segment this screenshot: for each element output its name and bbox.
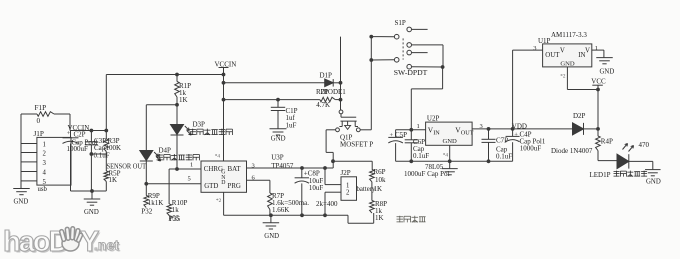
node: R7P ground junction <box>269 213 273 217</box>
svg-text:D: D <box>221 180 225 186</box>
LED D4P (green) <box>140 146 171 195</box>
node: D4P cathode junction <box>144 182 148 186</box>
svg-text:2: 2 <box>346 190 350 197</box>
svg-text:1uF: 1uF <box>286 121 297 129</box>
ground: left cluster earth <box>84 191 101 216</box>
wire: switch output to U2P input <box>411 67 442 130</box>
svg-text:1K: 1K <box>375 214 384 222</box>
node: switch pole 1 junction <box>369 35 373 39</box>
svg-text:3: 3 <box>480 123 483 130</box>
power: VCC symbol <box>591 78 606 90</box>
svg-text:5: 5 <box>188 175 191 182</box>
diode D1P (DIODE1) <box>316 72 346 96</box>
wire: battery node to R6P <box>333 161 372 169</box>
svg-text:GND: GND <box>84 209 99 216</box>
capacitor C3P (0.1uF) with R3P overlap <box>85 129 121 191</box>
wire: VCCIN feed with corner at x70 <box>70 114 106 131</box>
svg-text:F1P: F1P <box>35 104 47 112</box>
wire: VDD riser to U1P output <box>513 45 543 129</box>
svg-text:OUT: OUT <box>545 52 560 59</box>
svg-text:P32: P32 <box>141 207 152 215</box>
svg-text:10uF: 10uF <box>309 184 324 192</box>
svg-text:1K: 1K <box>179 96 188 104</box>
wire: U3P pin 1 (CHRG) wire <box>169 162 201 170</box>
svg-text:usb: usb <box>38 186 48 193</box>
svg-text:0.1uF: 0.1uF <box>496 153 512 161</box>
node: U2P input node <box>409 128 413 132</box>
svg-text:haoD: haoD <box>3 226 69 258</box>
wire: U3P pin 2 to ground rail <box>224 192 271 215</box>
svg-text:C2P: C2P <box>74 130 86 138</box>
wire: left ground rail <box>71 190 107 192</box>
svg-text:4.7K: 4.7K <box>316 101 330 109</box>
svg-text:*2: *2 <box>216 198 222 204</box>
node: battery + node <box>331 159 335 163</box>
regulator U2P (78L05) <box>426 115 474 146</box>
switch S1P SW-DPDT <box>371 19 443 77</box>
wire: gate vertical x340.5 <box>339 37 343 110</box>
wire: U1P input pin 1 to earth <box>592 45 604 58</box>
node: battery connector junctions <box>323 166 327 170</box>
svg-text:Diode 1N4007: Diode 1N4007 <box>551 147 593 155</box>
label: 78L05 designation <box>425 163 444 171</box>
ground: LED1P earth <box>645 170 661 186</box>
resistor R7P (1.6k) <box>268 192 310 216</box>
svg-text:1: 1 <box>417 123 420 130</box>
svg-text:D1P: D1P <box>320 72 333 80</box>
svg-text:OUT: OUT <box>461 130 474 137</box>
node: VCCIN net label (left) <box>68 124 90 132</box>
node: D3P cathode junction on U3P pin1 wire <box>175 167 179 171</box>
svg-text:10k: 10k <box>375 176 386 184</box>
wire: branch to D4P <box>146 105 177 150</box>
svg-text:1k1K: 1k1K <box>148 199 164 207</box>
wire: center ground rail <box>271 213 374 223</box>
svg-text:1: 1 <box>190 162 193 169</box>
regulator U1P (AM1117-3.3) <box>538 31 592 68</box>
svg-text:S1P: S1P <box>395 19 406 27</box>
wire: D1P rail y82.8 <box>224 82 325 84</box>
fuse/resistor F1P <box>21 104 70 125</box>
ground: C1P earth <box>270 129 287 143</box>
svg-text:J2P: J2P <box>341 169 351 177</box>
svg-text:D3P: D3P <box>193 120 206 128</box>
node: switch output junction <box>441 65 445 69</box>
wire: U2P output VDD wire <box>472 123 572 130</box>
svg-text:470: 470 <box>639 141 650 149</box>
LED D3P (red) <box>171 105 206 169</box>
resistor R9P (1k) <box>144 192 163 208</box>
diode D2P (1N4007) <box>551 112 598 155</box>
svg-text:4: 4 <box>43 170 47 177</box>
node: VCC junction <box>596 88 600 92</box>
wire: J2P pin1 feed <box>325 168 341 185</box>
label: C5P value text <box>404 170 450 178</box>
svg-text:1: 1 <box>43 142 46 149</box>
svg-text:TP4057: TP4057 <box>271 162 294 170</box>
svg-text:1000uF: 1000uF <box>520 145 542 153</box>
svg-text:1.66K: 1.66K <box>272 206 289 214</box>
svg-text:R6P: R6P <box>374 168 386 176</box>
svg-text:DIODE1: DIODE1 <box>321 88 347 96</box>
wire: regulator ground rail <box>396 160 513 162</box>
node: rail junctions <box>409 159 413 163</box>
wire: drop to R10P <box>168 169 170 204</box>
node: junction y74.5 <box>222 73 226 77</box>
capacitor C7P (0.1uF) <box>482 127 513 161</box>
svg-text:1k: 1k <box>172 206 180 214</box>
node: switch pole 2 junction <box>369 58 373 62</box>
svg-text:1: 1 <box>595 45 598 52</box>
ground: U1P earth <box>596 58 614 76</box>
svg-text:IN: IN <box>433 130 440 137</box>
wire: U3P pin 5 (GTD) wire <box>146 175 201 184</box>
wire: J1P pin bus vertical and F1P feed <box>20 114 22 188</box>
svg-text:U3P: U3P <box>271 153 284 161</box>
svg-text:GND: GND <box>271 136 286 143</box>
svg-text:3: 3 <box>533 45 536 52</box>
svg-text:BAT: BAT <box>228 166 242 173</box>
ground: center earth <box>263 215 280 240</box>
wire: VCC vertical to D2P cathode <box>597 90 599 129</box>
svg-text:+: + <box>390 132 394 139</box>
svg-text:GND: GND <box>600 68 615 75</box>
node: VDD net label <box>512 122 527 130</box>
svg-text:VCC: VCC <box>591 78 606 86</box>
node: junction y82.8 <box>222 81 226 85</box>
resistor R1P (1k) <box>175 73 191 105</box>
resistor R8P (1k) <box>370 200 388 222</box>
svg-text:P35: P35 <box>169 215 180 223</box>
node: junction y98.5 <box>222 98 226 102</box>
svg-text:R4P: R4P <box>601 138 613 146</box>
svg-text:GND: GND <box>14 199 29 206</box>
resistor R6P (10k) <box>370 168 386 200</box>
svg-text:2: 2 <box>43 151 47 158</box>
wire: U3P pin 6 PRG wire <box>247 174 270 193</box>
ground: J1P earth <box>13 189 30 206</box>
resistor R10P (1k) <box>167 199 187 215</box>
svg-text:D2P: D2P <box>573 112 586 120</box>
wire: U2P input wire <box>396 123 426 130</box>
svg-text:U1P: U1P <box>538 37 551 45</box>
svg-text:1K: 1K <box>109 176 118 184</box>
svg-text:GND: GND <box>646 178 661 185</box>
wire: U3P pin 3 BAT wire <box>247 162 334 169</box>
resistor R3P (100K) on second vertical <box>104 129 109 154</box>
node: SENSOR OUT net label <box>107 162 147 170</box>
resistor R5P (1K) <box>104 154 121 191</box>
wire: Q1P source to battery node (left path) <box>326 130 336 168</box>
svg-text:D4P: D4P <box>159 146 172 154</box>
label: power section chinese text <box>397 216 404 223</box>
wire: U2P ground pin <box>449 145 451 161</box>
svg-text:1: 1 <box>346 182 349 189</box>
svg-text:0: 0 <box>37 117 41 125</box>
svg-text:1000uF: 1000uF <box>67 145 89 153</box>
svg-text:1K: 1K <box>374 185 383 193</box>
capacitor C1P (1uF) <box>271 98 298 130</box>
wire: J2P pin2 to ground <box>325 192 341 215</box>
wire: U1P ground pin to VCC node <box>567 67 598 90</box>
svg-text:LED1P: LED1P <box>590 171 611 179</box>
node: C8P junctions <box>300 166 304 170</box>
svg-text:CHRG: CHRG <box>204 166 223 173</box>
svg-text:GND: GND <box>443 138 458 145</box>
capacitor C5P (1000uF Cap Pool) <box>388 130 407 162</box>
svg-text:V: V <box>560 47 565 54</box>
node: R1P bottom junction <box>175 103 179 107</box>
svg-text:+: + <box>67 130 71 137</box>
wire: connector between C3P and R3P columns <box>90 152 107 156</box>
capacitor C2P (Cap Pool 1000uF) <box>63 130 98 191</box>
wire: R2P rail y99.6 <box>224 99 320 101</box>
LED LED1P with 470 label <box>590 141 653 179</box>
wire: VCCIN riser x106.3 up and top rail y74.5 <box>106 75 223 131</box>
svg-text:PRG: PRG <box>228 183 241 190</box>
watermark haoDIY.net logo <box>3 226 121 259</box>
svg-text:GND: GND <box>560 61 575 68</box>
node: P32 net label <box>141 207 152 215</box>
svg-text:GND: GND <box>264 233 279 240</box>
svg-text:0.1uF: 0.1uF <box>94 152 110 160</box>
svg-text:AM1117-3.3: AM1117-3.3 <box>551 31 587 39</box>
wire: Q1P drain to switch vertical x371.3 <box>360 37 371 130</box>
svg-text:0.1uF: 0.1uF <box>413 152 429 160</box>
node: D2P cathode node <box>596 127 600 131</box>
ground: U2P earth <box>442 161 458 175</box>
svg-text:3: 3 <box>43 160 47 167</box>
resistor R4P (470) <box>596 129 613 161</box>
label: red LED chinese text <box>190 129 196 135</box>
svg-text:V: V <box>585 47 590 54</box>
node: P55 net label <box>168 215 180 223</box>
svg-text:2k=400: 2k=400 <box>316 200 338 208</box>
svg-text:GTD: GTD <box>204 183 218 190</box>
svg-text:*4: *4 <box>443 152 449 158</box>
svg-text:1000uF Cap Pol: 1000uF Cap Pol <box>404 170 450 178</box>
connector J2P (battery) <box>341 169 376 200</box>
svg-text:U2P: U2P <box>427 115 440 123</box>
svg-text:SW-DPDT: SW-DPDT <box>394 68 428 77</box>
resistor R2P (4.7K) <box>316 97 340 109</box>
svg-text:J1P: J1P <box>34 130 44 138</box>
transistor Q1P (MOSFET P) <box>336 110 374 148</box>
node: junction on ground rail <box>90 189 94 193</box>
svg-text:3: 3 <box>252 162 255 169</box>
svg-text:*2: *2 <box>560 74 566 80</box>
capacitor C4P (Cap Pol1 1000uF) <box>506 127 546 161</box>
svg-text:.net: .net <box>94 237 119 253</box>
svg-text:C7P: C7P <box>496 137 508 145</box>
label: green LED chinese text <box>157 154 163 160</box>
connector J1P <box>21 130 71 193</box>
label: R7P programming text <box>316 200 338 208</box>
power: VCCIN symbol <box>215 60 237 161</box>
capacitor C6P (0.1uF) <box>405 130 430 162</box>
svg-text:+: + <box>514 131 518 138</box>
op-amp U3P (TP4057 charger) <box>201 153 294 192</box>
svg-text:*4: *4 <box>215 153 221 159</box>
label: LED1P chinese text <box>614 171 620 177</box>
capacitor C8P (10uF) <box>295 168 324 215</box>
svg-text:MOSFET P: MOSFET P <box>340 140 373 148</box>
svg-text:C5P: C5P <box>395 131 407 139</box>
